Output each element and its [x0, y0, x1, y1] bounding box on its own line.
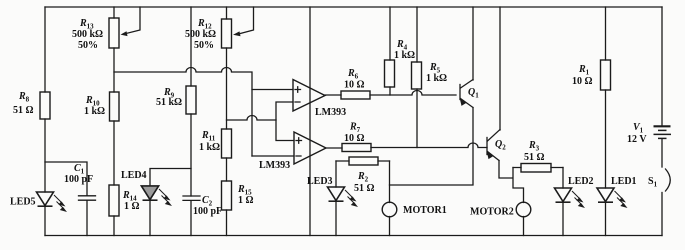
resistor R15	[222, 181, 254, 210]
svg-text:10 Ω: 10 Ω	[344, 133, 365, 144]
svg-text:LED5: LED5	[10, 197, 36, 208]
svg-text:51 Ω: 51 Ω	[13, 105, 34, 116]
svg-text:R1: R1	[578, 64, 590, 77]
wire LED1 to ground rail	[605, 203, 607, 236]
svg-text:1 kΩ: 1 kΩ	[84, 106, 105, 117]
svg-text:12 V: 12 V	[627, 134, 647, 145]
wire sensor node to comparator inputs	[114, 68, 252, 157]
svg-text:51 Ω: 51 Ω	[524, 152, 545, 163]
wire LED4 to ground rail	[149, 201, 151, 236]
svg-text:LED3: LED3	[307, 176, 333, 187]
svg-text:51 kΩ: 51 kΩ	[156, 97, 182, 108]
svg-text:500 kΩ: 500 kΩ	[72, 29, 103, 40]
wire LED3 to ground rail	[335, 202, 337, 236]
svg-text:1 kΩ: 1 kΩ	[199, 142, 220, 153]
wire R11 to R15	[226, 158, 228, 181]
svg-text:51 Ω: 51 Ω	[354, 183, 375, 194]
svg-text:100 pF: 100 pF	[193, 206, 222, 217]
svg-text:100 pF: 100 pF	[64, 174, 93, 185]
svg-text:V1: V1	[633, 122, 644, 135]
resistor R1	[572, 7, 611, 90]
switch S1	[648, 169, 670, 191]
wire LED5 to ground rail	[44, 207, 46, 236]
wire R15 to ground rail	[226, 210, 228, 236]
wire C2 to ground rail	[190, 201, 192, 236]
svg-text:LED4: LED4	[121, 170, 147, 181]
svg-text:R8: R8	[18, 91, 30, 104]
transistor Q2	[487, 130, 507, 161]
wire C1 bottom	[86, 201, 88, 236]
svg-text:Q2: Q2	[495, 139, 506, 152]
svg-text:LM393: LM393	[259, 160, 290, 171]
resistor R7	[342, 122, 371, 152]
svg-text:R11: R11	[201, 130, 216, 143]
wire LED4 branch	[150, 169, 191, 187]
wire Q1 collector	[472, 7, 474, 80]
svg-text:LED2: LED2	[568, 176, 594, 187]
LED3	[307, 161, 358, 207]
wire C1 top tap	[45, 162, 87, 196]
capacitor C2	[183, 195, 222, 217]
wire battery to switch	[661, 139, 663, 167]
wire R10 to R14	[113, 121, 115, 185]
wire Q2 collector	[499, 7, 501, 130]
wire R6 to Q1 base	[370, 91, 456, 96]
wire R13 to R10	[113, 48, 115, 92]
op-amp U1b LM393	[259, 132, 326, 171]
resistor R10	[84, 92, 119, 121]
resistor R11	[199, 129, 232, 158]
svg-text:1 Ω: 1 Ω	[124, 201, 140, 212]
svg-text:Q1: Q1	[468, 87, 479, 100]
LED5	[10, 192, 67, 212]
motor MOTOR2	[470, 202, 531, 235]
svg-text:R3: R3	[528, 140, 540, 153]
wire top supply rail	[45, 6, 662, 8]
wire R8 to LED5	[44, 119, 46, 192]
svg-text:50%: 50%	[194, 40, 214, 51]
LED2	[555, 168, 594, 209]
resistor R2	[336, 157, 390, 194]
svg-text:MOTOR1: MOTOR1	[403, 205, 447, 216]
svg-text:S1: S1	[648, 176, 658, 189]
svg-text:LED1: LED1	[611, 176, 637, 187]
wire R1 to LED1	[605, 90, 607, 188]
wire threshold node crossing	[227, 116, 277, 121]
wire U1b output	[326, 147, 342, 149]
wire R12 to R11	[226, 48, 228, 129]
wire LM393 supply column	[309, 7, 311, 236]
svg-text:1 Ω: 1 Ω	[238, 195, 254, 206]
wire R7 to Q2 base	[371, 143, 487, 148]
svg-text:500 kΩ: 500 kΩ	[185, 29, 216, 40]
LED4	[121, 170, 172, 206]
resistor R9	[156, 7, 196, 114]
svg-text:1 kΩ: 1 kΩ	[394, 50, 415, 61]
wire Q1 emitter to MOTOR1	[390, 108, 474, 186]
wire right branch top	[661, 7, 663, 126]
resistor R4	[385, 7, 416, 95]
battery V1	[627, 122, 671, 145]
wire R14 to ground rail	[113, 216, 115, 236]
wire switch to ground rail	[661, 193, 663, 236]
resistor R5	[412, 7, 448, 148]
wire left branch top	[44, 7, 46, 92]
svg-text:50%: 50%	[78, 40, 98, 51]
wire U1a output	[325, 94, 341, 96]
svg-text:MOTOR2: MOTOR2	[470, 207, 514, 218]
resistor R14	[109, 185, 140, 216]
potentiometer R13	[72, 7, 140, 51]
wire to U1a noninverting input	[252, 89, 293, 91]
wire bottom ground rail	[45, 235, 662, 237]
transistor Q1	[460, 80, 480, 108]
LED1	[597, 176, 637, 208]
op-amp U1a LM393	[293, 80, 346, 119]
resistor R6	[341, 68, 370, 99]
wire to U1b inverting input	[252, 155, 294, 157]
svg-text:1 kΩ: 1 kΩ	[426, 73, 447, 84]
motor MOTOR1	[382, 161, 447, 236]
potentiometer R12	[185, 7, 254, 51]
resistor R8	[13, 91, 50, 119]
wire comparator reference column	[276, 102, 294, 141]
wire R9 to C2	[190, 114, 192, 196]
capacitor C1	[64, 163, 96, 200]
wire LED2 to ground rail	[562, 203, 564, 236]
svg-text:LM393: LM393	[315, 107, 346, 118]
svg-text:R2: R2	[357, 171, 369, 184]
svg-text:10 Ω: 10 Ω	[572, 76, 593, 87]
resistor R3	[513, 140, 563, 172]
wire Q2 emitter to MOTOR2	[499, 161, 524, 203]
svg-text:10 Ω: 10 Ω	[344, 80, 365, 91]
